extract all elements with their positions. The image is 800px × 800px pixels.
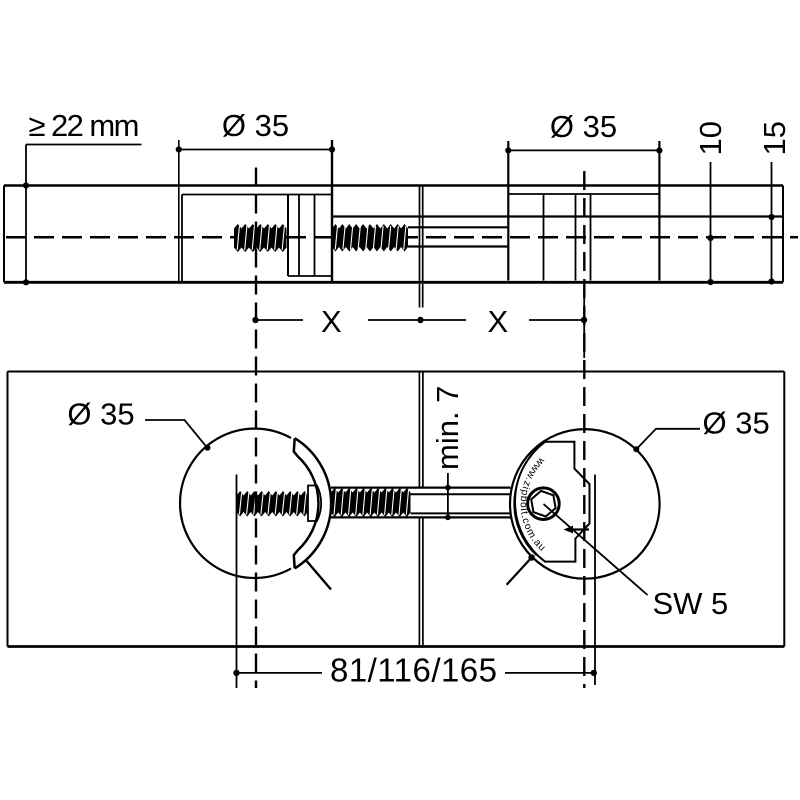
hex socket SW5 (528, 488, 560, 520)
arrow at bolt end (564, 526, 590, 534)
bolt thread (plan view) (331, 488, 411, 517)
right 35mm hole outline (top view) (508, 193, 659, 195)
stud thread (plan view) (237, 491, 309, 517)
right 35mm hole circle (plan view) (510, 429, 660, 579)
svg-text:Ø 35: Ø 35 (550, 109, 617, 144)
svg-text:≥ 22 mm: ≥ 22 mm (29, 108, 140, 143)
left 35mm hole circle (plan view) (180, 429, 291, 578)
worktop cross-section band (top view) (4, 186, 783, 283)
stud thread (top view) (234, 224, 287, 252)
svg-text:10: 10 (693, 121, 728, 155)
flange arc (right hole) (514, 445, 546, 556)
gearbox internals (top view right hole) (544, 194, 591, 281)
channel top line (top view) (332, 215, 782, 217)
svg-text:X: X (321, 304, 342, 339)
dimension left hole dia 35 (top view) (176, 108, 335, 281)
dimension 10 (centerline to bottom face) (693, 121, 728, 285)
right hole vertical centerline (dashed) (583, 171, 585, 688)
dimension 81/116/165 (233, 652, 597, 689)
svg-text:SW 5: SW 5 (653, 586, 729, 621)
left 35mm hole outline (top view) (182, 195, 332, 282)
svg-text:X: X (488, 304, 509, 339)
cam nut block (top view) (288, 195, 332, 277)
bolt-length extension line left (236, 475, 238, 689)
left hole vertical centerline (dashed) (255, 168, 257, 689)
bolt-length extension line right (594, 475, 596, 686)
channel edges (plan view) (331, 488, 511, 518)
horizontal centerline (top view) (6, 236, 798, 239)
dimension right hole dia 35 (top view) (505, 109, 662, 281)
svg-text:Ø 35: Ø 35 (67, 397, 134, 432)
gearbox body (plan view) (515, 442, 590, 562)
worktop joint (top view) (420, 186, 423, 308)
svg-text:Ø 35: Ø 35 (703, 406, 770, 441)
bolt shank (top view) (408, 227, 508, 246)
svg-text:81/116/165: 81/116/165 (330, 652, 497, 689)
dimension X / X (252, 288, 587, 358)
label right dia 35 with leader (633, 406, 769, 453)
watermark text (521, 442, 571, 567)
leader SW 5 (544, 504, 648, 595)
label left dia 35 with leader (67, 397, 210, 451)
dimension >=22mm (23, 108, 142, 285)
thread ribs texture (237, 226, 408, 515)
cam ring (plan view left hole) (294, 438, 331, 568)
dimension min. 7 (430, 386, 465, 521)
dimension 15 (channel depth) (757, 121, 792, 285)
connecting bolt thread (top view) (332, 224, 408, 252)
right circle tick with dot (528, 554, 534, 560)
worktop panels (plan view) (8, 372, 785, 647)
worktop joint (plan view) (419, 372, 423, 647)
svg-text:min. 7: min. 7 (430, 386, 465, 470)
nut sleeve (plan view) (308, 486, 321, 522)
cam lever tail (left hole) (306, 560, 331, 589)
svg-text:Ø 35: Ø 35 (222, 108, 289, 143)
svg-text:15: 15 (757, 121, 792, 155)
